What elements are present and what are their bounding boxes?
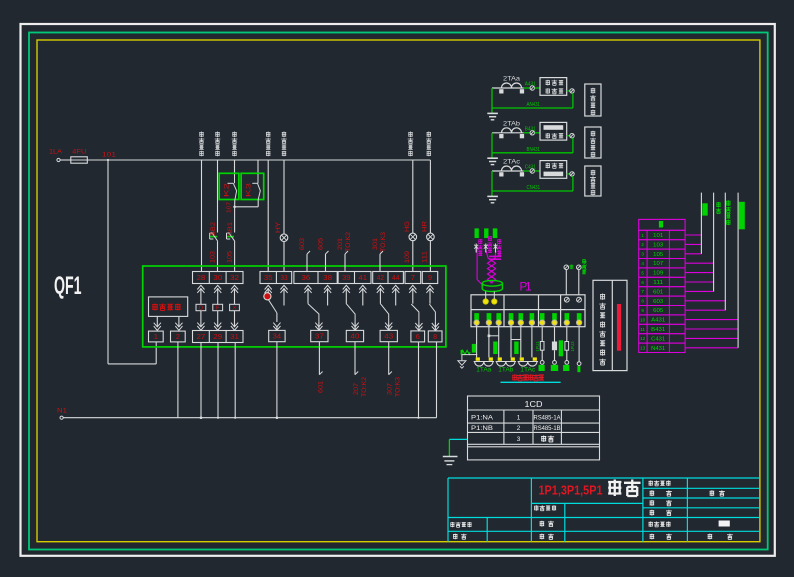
P1 cell1 terminals <box>483 299 497 304</box>
cable table 1CD <box>468 396 600 460</box>
wire drop to terminal 28 <box>201 160 203 272</box>
label blob green mid1 <box>493 342 497 355</box>
svg-text:101: 101 <box>653 233 663 239</box>
wire drop to lamp HY <box>283 160 285 234</box>
wire drop to lamp HG node 109 <box>412 160 414 234</box>
svg-text:5: 5 <box>641 270 644 275</box>
ground bus wire <box>462 355 478 361</box>
ground symbol <box>443 457 458 465</box>
wire neutral bus N1 <box>63 417 436 419</box>
wire terminal 37 stub node 601 <box>318 342 325 393</box>
wire stub node 201 TO:K2 <box>337 231 352 271</box>
svg-text:12: 12 <box>640 336 646 341</box>
svg-text:27: 27 <box>197 332 206 341</box>
label date <box>650 510 672 516</box>
switch 39 to 40 <box>346 304 358 331</box>
svg-text:TO:K2: TO:K2 <box>345 231 352 252</box>
fuse 4FU <box>71 149 88 164</box>
wire label label col 3 <box>232 132 238 157</box>
cable conductor marks <box>474 244 501 260</box>
wire terminal 40 stub node 207 TO:K2 <box>353 342 368 397</box>
wire P1 terminal 10 <box>577 327 581 373</box>
voltage input terminal 1 <box>564 265 573 295</box>
svg-text:HG: HG <box>404 221 411 232</box>
svg-text:2: 2 <box>176 332 180 341</box>
arrow terminal 7 <box>409 285 416 303</box>
relay contact K2 <box>219 173 239 199</box>
svg-text:201: 201 <box>337 237 344 250</box>
wire HR to terminal 9 <box>421 240 430 271</box>
svg-text:1P1,3P1,5P1: 1P1,3P1,5P1 <box>539 483 603 497</box>
svg-text:3: 3 <box>517 436 521 443</box>
terminal 1LA <box>49 149 63 162</box>
svg-text:42: 42 <box>377 273 384 282</box>
shield ground wire <box>449 439 467 456</box>
svg-text:40: 40 <box>350 332 359 341</box>
svg-text:SB2: SB2 <box>210 221 217 236</box>
arrow to terminal 1 <box>154 316 161 330</box>
indicator lamp HY <box>275 222 288 242</box>
svg-text:103: 103 <box>653 242 663 248</box>
wire label label col 5 <box>281 132 287 157</box>
label page <box>650 534 733 540</box>
wire drop to terminal 35 <box>267 160 269 272</box>
wire bus end drop to lamp HR node 111 <box>429 160 431 234</box>
drawing title inline glyphs <box>608 480 640 497</box>
terminal 43 <box>380 330 397 341</box>
svg-text:P1: P1 <box>520 282 532 294</box>
wire drop 101 to box1 path <box>107 159 156 364</box>
terminal strip outgoing wires <box>685 235 738 348</box>
wire stub node 301 TO:K3 <box>372 231 387 271</box>
svg-text:105: 105 <box>653 252 663 258</box>
label drafting <box>540 521 554 527</box>
arrow to terminal 2 <box>175 316 182 330</box>
current transformer 2TAa compensator circuit <box>487 76 574 120</box>
label blob green N401 <box>472 344 476 353</box>
svg-text:BN431: BN431 <box>527 147 541 153</box>
svg-text:2: 2 <box>517 425 521 432</box>
wire terminal 27 to N1 <box>200 343 203 420</box>
wire terminal 31 to N1 <box>234 343 236 419</box>
svg-text:F: F <box>216 305 220 311</box>
current transformer 1TAc <box>518 357 538 373</box>
pushbutton SB2 <box>210 221 218 241</box>
wire stub node 603 <box>299 237 310 271</box>
outgoing bus lines <box>701 193 738 348</box>
svg-text:Q: Q <box>199 305 204 311</box>
wire label label col 1 <box>199 132 205 157</box>
label std dwg no <box>649 521 730 527</box>
wire HY to terminal 33 <box>283 241 285 271</box>
indicator lamp HR <box>421 220 434 240</box>
voltage sampling box 2 <box>585 127 601 158</box>
cable signal labels RS485 <box>478 236 502 256</box>
switch 42 to 43 <box>380 304 392 331</box>
svg-text:AN431: AN431 <box>527 102 541 108</box>
svg-text:111: 111 <box>421 250 428 263</box>
svg-text:33: 33 <box>280 273 287 282</box>
P1 label <box>520 282 532 294</box>
terminal 40 <box>346 330 363 341</box>
switch 7 to 6 <box>411 304 422 331</box>
wire label label col 2 <box>215 132 221 157</box>
wire HG to terminal 7 <box>404 240 413 271</box>
svg-text:A431: A431 <box>651 318 665 324</box>
arrow and gate F under terminal <box>213 285 223 330</box>
fuse 1FU1 <box>535 327 545 371</box>
svg-text:111: 111 <box>653 280 663 286</box>
svg-text:9: 9 <box>641 308 644 313</box>
red marker bar <box>617 304 621 351</box>
svg-text:307: 307 <box>387 382 394 395</box>
svg-text:2: 2 <box>641 242 644 247</box>
svg-text:107: 107 <box>653 261 663 267</box>
breaker label QF1 <box>54 272 82 300</box>
svg-text:13: 13 <box>640 346 646 351</box>
wire drop to SB2 <box>217 160 219 233</box>
switch 9 to 8 <box>429 304 439 331</box>
svg-text:QF1: QF1 <box>54 272 82 300</box>
label proofread <box>540 534 554 540</box>
wire label label col 4 <box>265 132 271 157</box>
current transformer 1TAa <box>474 357 494 373</box>
svg-text:31: 31 <box>230 332 239 341</box>
label specialty <box>650 490 725 496</box>
svg-text:SB1: SB1 <box>227 221 234 236</box>
wire terminal 2 to N1 <box>177 342 179 418</box>
svg-text:601: 601 <box>653 289 663 295</box>
svg-text:TO:K3: TO:K3 <box>395 376 402 397</box>
fuse 1FU3 <box>563 327 575 371</box>
label blob green mid2 <box>514 342 518 355</box>
cable shield sleeve <box>482 280 502 291</box>
svg-text:6: 6 <box>641 280 644 285</box>
svg-text:109: 109 <box>404 250 411 263</box>
wire SB1 to terminal 32 node 105 <box>227 241 235 271</box>
label project lead <box>450 522 471 527</box>
current transformer 2TAb compensator circuit <box>487 121 574 165</box>
svg-text:N431: N431 <box>651 346 665 352</box>
wire terminal 34 to N1 <box>276 342 279 419</box>
svg-text:P1:NB: P1:NB <box>471 425 493 432</box>
terminal block 36 38 <box>294 272 337 284</box>
terminal 34 <box>269 330 285 341</box>
wire junction to SB1 <box>234 207 236 233</box>
current transformer 2TAc compensator circuit <box>487 159 574 203</box>
indicator lamp HG <box>404 221 417 241</box>
label project check <box>534 505 556 510</box>
svg-text:TO:K2: TO:K2 <box>361 376 368 397</box>
wire drop to relay contact K3 <box>257 160 259 175</box>
svg-text:7: 7 <box>641 289 644 294</box>
title block grid <box>448 478 760 542</box>
svg-text:4FU: 4FU <box>72 149 86 156</box>
svg-text:105: 105 <box>227 250 234 263</box>
svg-text:103: 103 <box>210 250 217 263</box>
wire stub node 605 <box>318 237 329 271</box>
wires P1 to 1TAa <box>477 325 489 357</box>
connector P1 outline <box>471 295 585 327</box>
label design stage <box>649 481 671 486</box>
svg-text:C431: C431 <box>525 165 536 171</box>
svg-text:B431: B431 <box>651 327 665 333</box>
svg-text:9: 9 <box>428 273 432 282</box>
terminal N1 <box>57 408 67 420</box>
terminal block 28 30 32 <box>193 272 244 284</box>
svg-text:30: 30 <box>213 273 222 282</box>
svg-text:36: 36 <box>301 273 310 282</box>
wire terminal 8 to N1 end <box>436 342 438 418</box>
wire drop to relay contact K2 <box>234 160 236 175</box>
arrow terminal 44 stub <box>392 285 399 305</box>
svg-text:1CD: 1CD <box>525 399 543 409</box>
caption box sampling loop <box>593 280 627 370</box>
arrow terminal 42 <box>377 285 384 303</box>
fuse 1FU2 <box>551 327 563 371</box>
svg-text:B431: B431 <box>525 127 536 133</box>
wire SB2 to terminal 30 node 103 <box>210 241 218 271</box>
meter caption red <box>501 374 561 382</box>
drawing title 1P1,3P1,5P1 <box>539 483 603 497</box>
terminal 9 <box>422 272 437 284</box>
processing unit box <box>149 297 188 317</box>
svg-text:P1:NA: P1:NA <box>471 414 494 421</box>
terminal 37 <box>311 330 328 341</box>
svg-text:32: 32 <box>230 273 239 282</box>
switch 35 to 34 <box>269 300 281 330</box>
terminal block 27 29 31 <box>193 331 244 343</box>
terminal block 39 41 <box>338 272 371 284</box>
svg-text:11: 11 <box>640 327 645 332</box>
wires P1 to 1TAb <box>499 325 511 357</box>
voltage sampling box 3 <box>585 166 601 196</box>
svg-text:605: 605 <box>318 237 325 250</box>
svg-text:207: 207 <box>353 382 360 395</box>
P1 bottom terminal row <box>474 313 582 325</box>
arrow and gate X under terminal <box>230 285 240 330</box>
node 101 <box>102 152 116 159</box>
earthing resistor <box>461 350 470 355</box>
svg-text:1: 1 <box>154 332 158 341</box>
cable signal bars <box>475 228 498 238</box>
svg-text:109: 109 <box>653 271 663 277</box>
svg-text:44: 44 <box>392 273 399 282</box>
svg-text:C431: C431 <box>651 336 665 342</box>
wire links CT secondary <box>488 335 521 340</box>
terminal 8 <box>428 331 442 342</box>
svg-text:39: 39 <box>342 273 350 282</box>
svg-text:1FU1: 1FU1 <box>535 341 540 351</box>
svg-text:601: 601 <box>318 380 325 393</box>
protection unit enclosure box <box>143 266 446 347</box>
terminal strip rows <box>639 230 685 352</box>
label N401 green vertical <box>583 260 589 272</box>
svg-text:41: 41 <box>359 273 368 282</box>
svg-text:1TAb: 1TAb <box>498 367 514 374</box>
svg-text:A431: A431 <box>525 82 536 88</box>
wire terminal 43 stub node 307 TO:K3 <box>387 342 402 397</box>
arrow terminal 33 stub <box>280 285 287 305</box>
svg-text:K3: K3 <box>246 182 253 197</box>
svg-text:605: 605 <box>653 308 663 314</box>
terminal 7 <box>405 272 421 284</box>
svg-text:38: 38 <box>323 273 332 282</box>
svg-text:HY: HY <box>275 222 282 233</box>
svg-text:301: 301 <box>372 237 379 250</box>
pushbutton SB1 <box>227 221 235 241</box>
svg-text:107: 107 <box>227 202 233 213</box>
svg-text:2TAc: 2TAc <box>503 159 520 166</box>
svg-text:X: X <box>233 305 237 311</box>
svg-text:K2: K2 <box>224 182 231 197</box>
wire main control bus 101 <box>87 159 430 161</box>
svg-text:7: 7 <box>411 273 415 282</box>
svg-text:29: 29 <box>213 332 222 341</box>
svg-text:8: 8 <box>433 332 437 341</box>
arrow terminal 41 stub <box>359 285 366 305</box>
svg-text:1: 1 <box>517 414 521 421</box>
svg-text:28: 28 <box>197 273 206 282</box>
svg-text:1: 1 <box>641 233 644 238</box>
P1 cell4 terminals <box>564 297 581 302</box>
svg-text:1TAc: 1TAc <box>520 367 535 374</box>
svg-text:603: 603 <box>653 299 663 305</box>
arrow terminal 35 with trip dot <box>264 285 272 300</box>
bus line labels <box>702 203 707 215</box>
voltage input terminal 2 <box>577 259 587 295</box>
voltage sampling box 1 <box>585 84 601 116</box>
svg-text:34: 34 <box>273 332 281 341</box>
svg-text:6: 6 <box>416 332 420 341</box>
wire label label col 7 <box>426 132 432 157</box>
svg-text:4: 4 <box>641 261 644 266</box>
svg-text:603: 603 <box>299 237 306 250</box>
wire K3 K2 junction node 107 <box>227 200 259 214</box>
svg-text:1TAa: 1TAa <box>476 367 492 374</box>
svg-text:43: 43 <box>384 332 393 341</box>
arrow terminal 36 <box>304 285 311 303</box>
arrow terminal 38 stub <box>324 285 331 305</box>
relay contact K3 <box>241 173 264 199</box>
svg-text:8: 8 <box>641 299 644 304</box>
ground arrow <box>458 361 466 368</box>
svg-text:2TAa: 2TAa <box>503 76 521 83</box>
svg-text:RS485-1B: RS485-1B <box>534 425 561 432</box>
label audit <box>453 534 467 540</box>
svg-text:N1: N1 <box>57 408 67 415</box>
arrow terminal 9 <box>426 285 433 303</box>
shield wires to P1 terminals <box>486 292 495 299</box>
svg-text:1FU3: 1FU3 <box>570 341 575 351</box>
terminal block 35 33 <box>260 272 292 284</box>
wire terminal 29 to N1 <box>217 343 219 419</box>
arrow terminal 39 <box>343 285 350 303</box>
twisted pair cable to P1 <box>477 249 496 287</box>
svg-text:1LA: 1LA <box>49 149 63 156</box>
current transformer 1TAb <box>496 357 516 373</box>
wire label label col 6 <box>408 132 414 157</box>
wire terminal 6 to N1 <box>417 342 419 419</box>
terminal 6 <box>411 331 425 342</box>
svg-text:2TAb: 2TAb <box>503 121 521 128</box>
svg-text:TO:K3: TO:K3 <box>380 231 387 252</box>
svg-text:N401: N401 <box>583 260 589 272</box>
svg-text:RS485-1A: RS485-1A <box>534 414 562 421</box>
svg-text:3: 3 <box>641 252 644 257</box>
terminal 2 <box>171 331 186 342</box>
switch 36 to 37 <box>308 304 323 331</box>
svg-text:101: 101 <box>102 152 116 159</box>
terminal 1 <box>149 331 164 342</box>
svg-text:10: 10 <box>640 317 646 322</box>
wires P1 to 1TAc <box>521 325 532 357</box>
svg-text:37: 37 <box>315 332 324 341</box>
arrow and gate Q under terminal <box>196 285 206 330</box>
svg-text:CN431: CN431 <box>527 185 541 191</box>
wire 1LA to fuse <box>60 159 71 161</box>
terminal strip header <box>639 219 685 230</box>
terminal block 42 44 <box>373 272 404 284</box>
svg-text:HR: HR <box>421 220 428 232</box>
svg-text:35: 35 <box>264 273 272 282</box>
label drawing no <box>650 500 672 506</box>
